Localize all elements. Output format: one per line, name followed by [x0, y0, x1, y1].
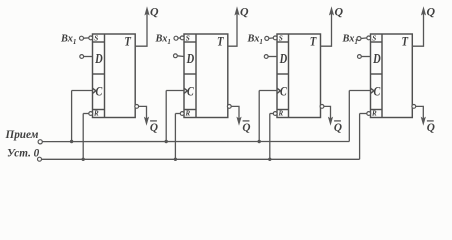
- U2 dynamic input chevron: [184, 88, 187, 93]
- U1 inverse output bubble: [135, 105, 139, 109]
- riser Ust0 bus to R of U3: [269, 114, 271, 160]
- wire Q output of U1: [135, 10, 147, 46]
- arrow Qbar output U2: [236, 117, 241, 126]
- arrow Q output U2: [234, 6, 239, 15]
- svg-text:Q: Q: [427, 122, 435, 134]
- riser Ust0 bus to R of U1: [82, 114, 84, 160]
- svg-text:Вх1: Вх1: [342, 33, 358, 46]
- U1 S input inversion bubble: [89, 36, 93, 40]
- wire R input of U2 from Ust0 riser: [175, 113, 180, 115]
- svg-text:D: D: [94, 51, 102, 67]
- svg-text:Q: Q: [240, 4, 249, 18]
- svg-text:S: S: [372, 34, 376, 42]
- riser Priem bus to C of U3: [258, 91, 260, 142]
- flip-flop U3 (D-trigger) body: [277, 34, 321, 118]
- arrow Qbar output U3: [328, 117, 333, 126]
- wire C input of U2 from Priem riser: [166, 90, 184, 92]
- svg-text:C: C: [96, 84, 103, 98]
- riser Priem bus to C of U4: [348, 91, 350, 142]
- U2 inverse output bubble: [227, 105, 231, 109]
- svg-text:T: T: [402, 35, 409, 49]
- svg-text:T: T: [217, 35, 224, 49]
- wire Q output of U4: [412, 10, 423, 46]
- Ust0 bus wire: [42, 158, 360, 160]
- wire D3 terminal to D input: [268, 56, 277, 58]
- svg-text:Q: Q: [150, 122, 158, 134]
- svg-text:Вх1: Вх1: [60, 33, 76, 46]
- riser Priem bus to C of U1: [71, 91, 73, 142]
- wire D1 terminal to D input: [84, 56, 93, 58]
- U4 R input inversion bubble: [367, 112, 371, 116]
- junction Priem bus / C riser U2: [165, 140, 168, 143]
- junction Priem bus / C riser U1: [70, 140, 73, 143]
- flip-flop U1 (D-trigger) body: [93, 34, 136, 118]
- svg-text:D: D: [186, 51, 194, 67]
- U3 dynamic input chevron: [277, 88, 280, 93]
- riser Ust0 bus to R of U2: [174, 114, 176, 160]
- svg-text:R: R: [185, 110, 191, 118]
- wire Qbar output of U2: [231, 106, 239, 121]
- svg-text:Q: Q: [335, 4, 344, 18]
- wire R input of U1 from Ust0 riser: [83, 113, 89, 115]
- wire Vx1 terminal to S bubble: [84, 37, 90, 39]
- wire D2 terminal to D input: [177, 55, 184, 58]
- wire Vx4 terminal to S bubble: [361, 37, 367, 40]
- svg-text:Прием: Прием: [5, 129, 39, 141]
- svg-text:C: C: [374, 84, 381, 98]
- U4 S input inversion bubble: [367, 36, 371, 40]
- U1 dynamic input chevron: [93, 88, 96, 93]
- svg-text:S: S: [94, 34, 98, 42]
- wire Vx3 terminal to S bubble: [269, 37, 274, 40]
- wire Q output of U2: [228, 10, 237, 46]
- flip-flop U2 (D-trigger) body: [184, 34, 228, 118]
- terminal Ust.0: [38, 157, 42, 161]
- wire C input of U4 from Priem riser: [349, 90, 370, 92]
- U2 R input inversion bubble: [180, 112, 184, 116]
- riser Ust0 bus to R of U4: [359, 114, 361, 160]
- arrow Qbar output U4: [421, 117, 426, 126]
- junction Priem bus / C riser U3: [258, 140, 261, 143]
- input D4 terminal: [358, 55, 362, 59]
- svg-text:S: S: [186, 34, 190, 42]
- svg-text:R: R: [371, 110, 377, 118]
- wire C input of U1 from Priem riser: [72, 90, 93, 92]
- input D3 terminal: [264, 55, 268, 59]
- svg-text:T: T: [310, 35, 317, 49]
- wire Q output of U3: [321, 10, 332, 46]
- svg-text:Вх1: Вх1: [155, 33, 171, 46]
- svg-text:D: D: [372, 51, 380, 67]
- wire Qbar output of U1: [139, 106, 147, 121]
- input D1 terminal: [80, 55, 84, 59]
- svg-text:Q: Q: [334, 122, 342, 134]
- svg-text:R: R: [93, 110, 99, 118]
- svg-text:D: D: [279, 51, 287, 67]
- wire Qbar output of U3: [324, 106, 331, 121]
- wire Vx2 terminal to S bubble: [178, 37, 181, 39]
- arrow Qbar output U1: [144, 117, 149, 126]
- junction Ust0 bus / R riser U1: [82, 158, 85, 161]
- svg-text:Уст. 0: Уст. 0: [7, 148, 40, 160]
- wire R input of U3 from Ust0 riser: [270, 113, 274, 115]
- svg-text:Q: Q: [427, 4, 436, 18]
- svg-text:S: S: [279, 34, 283, 42]
- input D2 terminal: [174, 54, 178, 58]
- U3 inverse output bubble: [320, 105, 324, 109]
- input Vx3 terminal: [265, 36, 269, 40]
- wire C input of U3 from Priem riser: [259, 90, 277, 92]
- wire Qbar output of U4: [416, 106, 424, 121]
- input Vx1 terminal: [80, 36, 84, 40]
- svg-text:Q: Q: [242, 122, 250, 134]
- U3 S input inversion bubble: [273, 36, 277, 40]
- arrow Q output U4: [421, 6, 426, 15]
- junction Ust0 bus / R riser U3: [268, 158, 271, 161]
- svg-text:C: C: [187, 84, 194, 98]
- U4 dynamic input chevron: [371, 88, 374, 93]
- svg-text:C: C: [280, 84, 287, 98]
- svg-text:Q: Q: [150, 4, 159, 18]
- input Vx4 terminal: [357, 37, 361, 41]
- junction Ust0 bus / R riser U2: [174, 158, 177, 161]
- wire R input of U4 from Ust0 riser: [360, 113, 367, 115]
- svg-text:T: T: [124, 35, 131, 49]
- riser Priem bus to C of U2: [165, 91, 167, 142]
- input Vx2 terminal: [174, 36, 178, 40]
- svg-text:R: R: [278, 110, 284, 118]
- U2 S input inversion bubble: [180, 36, 184, 40]
- U3 R input inversion bubble: [273, 112, 277, 116]
- terminal Priem: [38, 140, 42, 144]
- arrow Q output U1: [144, 6, 149, 15]
- U1 R input inversion bubble: [89, 112, 93, 116]
- svg-text:Вх1: Вх1: [247, 33, 263, 46]
- U4 inverse output bubble: [412, 105, 416, 109]
- arrow Q output U3: [329, 6, 334, 15]
- wire D4 terminal to D input: [361, 56, 370, 58]
- flip-flop U4 (D-trigger) body: [371, 34, 413, 118]
- Priem bus wire: [42, 141, 349, 143]
